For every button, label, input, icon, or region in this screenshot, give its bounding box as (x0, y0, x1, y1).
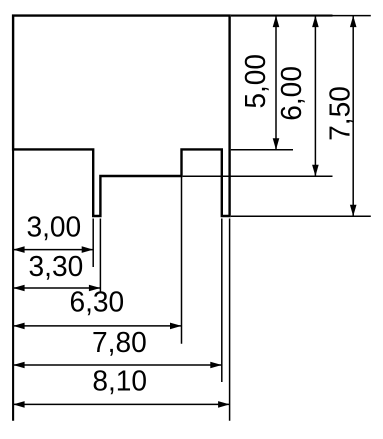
extension line x=3.30 (99, 219, 101, 294)
dimension 3,30 line (13, 285, 100, 292)
extension line y=6.00 level (183, 175, 333, 177)
extension line top edge (right of body) (231, 15, 371, 17)
svg-text:3,00: 3,00 (26, 211, 81, 243)
svg-text:7,50: 7,50 (324, 86, 356, 141)
dimension 6,30 line (13, 323, 181, 330)
part outline (13, 16, 230, 216)
extension line y=7.50 level (231, 215, 371, 217)
extension line x=3.00 (92, 219, 94, 268)
dimension 3,00 line (13, 246, 93, 253)
dimension 8,10 line (13, 401, 230, 408)
extension line x=7.80 (221, 219, 223, 383)
svg-text:7,80: 7,80 (92, 326, 147, 358)
dimension 6,00 line (312, 16, 319, 177)
extension line x=6.30 (181, 177, 183, 344)
extension line x=8.10 (229, 219, 231, 421)
svg-text:5,00: 5,00 (240, 54, 272, 109)
svg-text:3,30: 3,30 (29, 251, 84, 283)
extension line left edge (below body) (12, 149, 14, 420)
svg-text:6,00: 6,00 (275, 66, 307, 121)
dimension 5,00 line (273, 16, 280, 150)
dimension 7,50 line (350, 16, 357, 217)
svg-text:6,30: 6,30 (69, 286, 124, 318)
dimension 7,80 line (13, 362, 222, 369)
svg-text:8,10: 8,10 (92, 365, 147, 397)
extension line y=5.00 level (231, 149, 293, 151)
